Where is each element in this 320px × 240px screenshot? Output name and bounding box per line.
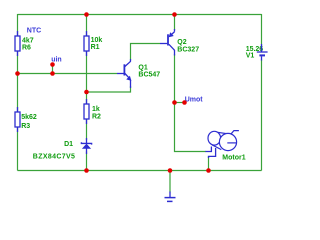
svg-text:Umot: Umot <box>185 97 204 104</box>
resistor R6 <box>15 31 20 56</box>
battery V1 <box>257 44 268 61</box>
wire top rail <box>18 14 262 16</box>
svg-text:BC547: BC547 <box>138 72 160 79</box>
junction uin on base rail <box>50 71 55 76</box>
svg-text:D1: D1 <box>64 141 73 148</box>
svg-text:R3: R3 <box>21 123 30 130</box>
ground <box>165 192 176 202</box>
resistor R2 <box>84 99 89 124</box>
wire uin stub <box>52 65 54 74</box>
svg-text:5k62: 5k62 <box>21 114 37 121</box>
junction ground bottom rail <box>168 168 173 173</box>
svg-text:NTC: NTC <box>27 28 41 35</box>
wire D1 to bottom rail <box>86 152 88 171</box>
junction top R1 <box>84 12 89 17</box>
junction top Q2 <box>172 12 177 17</box>
wire right rail lower (V1 to bottom) <box>261 60 263 171</box>
svg-text:1k: 1k <box>92 106 100 113</box>
node Umot terminal <box>182 100 187 105</box>
wire ground stub <box>169 171 171 193</box>
wire emitter rail <box>87 86 131 92</box>
wire emitter junction to R2 <box>86 92 88 105</box>
wire R1 top lead <box>86 15 88 37</box>
svg-text:R6: R6 <box>22 44 31 51</box>
dc motor Motor1 <box>205 131 239 158</box>
svg-text:V1: V1 <box>246 53 255 60</box>
wire left rail upper (to R6) <box>17 14 19 37</box>
wire motor pin2 to bottom rail <box>208 156 210 170</box>
svg-text:BC327: BC327 <box>177 46 199 53</box>
svg-text:Q1: Q1 <box>138 65 147 72</box>
wire left rail R6 to base-rail junction <box>17 51 19 74</box>
resistor R3 <box>15 107 20 132</box>
svg-text:Q2: Q2 <box>177 39 186 46</box>
svg-text:10k: 10k <box>91 37 103 44</box>
node uin terminal <box>50 62 55 67</box>
wire right rail upper (to V1) <box>261 14 263 48</box>
wire Q2 collector down to motor <box>175 54 206 152</box>
svg-text:BZX84C7V5: BZX84C7V5 <box>33 154 75 161</box>
svg-text:Motor1: Motor1 <box>222 155 245 162</box>
junction left base rail <box>15 71 20 76</box>
wire R2 to D1 <box>86 119 88 141</box>
wire left rail R3 to bottom rail <box>17 127 19 171</box>
junction D1 bottom rail <box>84 168 89 173</box>
wire left rail junction to R3 <box>17 74 19 114</box>
wire Umot stub <box>175 102 185 104</box>
zener diode D1 <box>81 138 91 154</box>
wire bottom rail <box>18 170 262 172</box>
transistor Q2 <box>160 29 175 56</box>
junction Umot on collector wire <box>172 100 177 105</box>
resistor R1 <box>84 31 89 56</box>
wire Q2 emitter to top rail <box>174 15 176 31</box>
svg-text:R2: R2 <box>92 113 101 120</box>
wire base rail <box>18 73 118 75</box>
wire R1 bottom to emitter junction <box>86 51 88 93</box>
junction emitter R1 R2 <box>84 90 89 95</box>
svg-text:R1: R1 <box>91 44 100 51</box>
wire Q1 collector to Q2 base <box>131 44 161 60</box>
transistor Q1 <box>117 59 131 88</box>
junction motor bottom rail <box>206 168 211 173</box>
